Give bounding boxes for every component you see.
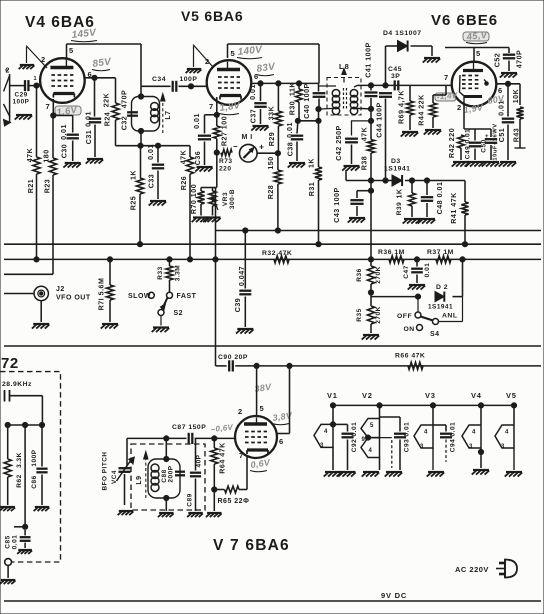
svg-text:C43 100P: C43 100P [333,187,341,223]
label heater V3 [425,391,436,400]
annot -1.4V [435,91,458,102]
svg-text:3.3M: 3.3M [175,265,182,281]
resistor R44 22K [429,85,446,128]
ground terminal [0,580,16,584]
svg-text:R44 22K: R44 22K [418,94,426,126]
label C34 [152,76,166,83]
svg-text:3: 3 [469,444,473,450]
capacitor C36 0.01 [198,136,211,165]
svg-text:R38: R38 [361,156,369,171]
pin label 2 V7 [238,407,243,416]
ground C85 [17,550,32,554]
svg-text:C87 150P: C87 150P [172,424,206,431]
label C33 0.01 [147,144,156,188]
label 28.9KHz [2,381,32,388]
label C30 0.01 [60,124,69,158]
capacitor C43 100P [350,200,363,216]
label C51 0.01 [498,100,507,142]
svg-text:72: 72 [1,355,19,372]
label V5 6BA6 [181,8,243,24]
node C39 top [243,228,248,233]
heater rail drops [333,405,514,437]
wire V4 grid input [10,85,41,87]
wire V6 cathode [464,105,491,129]
capacitor C45 3P [395,80,399,90]
node L7 bottom [138,128,143,133]
tube V4 [40,58,85,103]
ground S2 [152,328,170,333]
wire V4 cathode [53,99,72,116]
label J2 VFO OUT [56,286,91,302]
svg-text:R24: R24 [104,112,112,127]
slug arrow L8 [342,69,346,83]
node C42 join [368,118,373,123]
svg-text:R62: R62 [16,474,23,487]
capacitor C88 200P [175,472,185,476]
capacitor C40 100P lead [318,83,320,91]
annot 1.6V V4 [55,105,81,119]
wire C34 coupling to V5 grid [141,85,208,87]
ground grid V5 [186,69,202,73]
ground C37 [251,126,269,131]
label ON [404,326,415,333]
label OFF [397,313,412,320]
ground R69 [401,132,419,137]
capacitor C85 0.01 [20,530,31,548]
label D3 1S1941 [384,158,410,173]
label D4 1S1007 [383,30,422,37]
svg-text:C31: C31 [85,130,93,145]
heater V4h [462,425,484,455]
svg-text:4: 4 [424,430,428,436]
resistor R64 47K [211,438,218,489]
inductor L9 [151,464,159,492]
wire V7 screen link [256,366,258,416]
grid cap lead V4 [26,46,47,69]
svg-text:270K: 270K [375,266,382,284]
ground C49 [466,162,484,167]
annot 145V [71,27,98,41]
svg-text:R28: R28 [267,185,275,200]
wire B+ row under L7 [116,121,191,146]
label heater V1 [327,391,338,400]
label L9 [136,475,143,484]
resistor R37 1M on rail C [436,256,451,263]
node R35 top [368,290,373,295]
label R66 47K [395,353,425,360]
resistor R35 270K [367,293,374,334]
svg-text:5: 5 [260,404,265,413]
label C41 100P [365,42,373,78]
svg-text:R73: R73 [219,158,233,165]
ground J2 [32,324,50,329]
resistor R65 220 [214,486,239,493]
resistor R33 3.3M [166,259,173,292]
capacitor C30 0.01 [67,116,79,162]
tube V7 [235,416,277,458]
heater V5h [495,425,514,470]
node L7 top [138,94,143,99]
svg-text:V 7 6BA6: V 7 6BA6 [213,537,290,554]
label plus M1 [259,142,264,152]
wire V4 plate rail to C34 node [67,44,142,86]
node C34 right [188,84,193,89]
resistor R73 220 [221,149,232,155]
svg-text:300-B: 300-B [229,189,236,209]
capacitor C89 40P [190,438,201,511]
node R33 top [167,257,172,262]
svg-text:D 2: D 2 [436,284,448,291]
label V6 6BE6 [431,12,498,29]
label jack pin 2 [6,68,10,75]
tube V5 [207,60,252,105]
svg-text:5: 5 [69,46,74,55]
resistor R62 3.3K [4,425,11,505]
svg-text:R27 100: R27 100 [221,116,229,146]
wire V5 pin6 screen run [251,82,319,84]
node D2 anode [415,294,420,299]
ground C47 [408,285,426,290]
svg-text:V5: V5 [506,391,517,400]
svg-text:C49 0.01: C49 0.01 [465,129,472,159]
label C47 0.01 [403,263,431,279]
node X row 1 [5,422,10,427]
node C51 top [505,81,510,86]
svg-text:7: 7 [209,102,214,111]
label R28 150 [267,156,275,199]
svg-text:ANL: ANL [442,313,457,320]
label C85 0.01 [5,535,19,550]
label R29 33K [268,105,277,146]
node C37 top [258,81,263,86]
svg-text:C51: C51 [498,128,506,143]
ground C39 [236,329,254,334]
capacitor C50 10uF [485,129,497,160]
ground C31 [86,159,104,164]
resistor R71 5.6M [106,259,113,322]
heater V2 lower [361,438,380,458]
wire V6 pin6 out [496,84,520,105]
label C87 150P [172,424,206,431]
node R38 rail C [368,257,373,262]
svg-text:1S1941: 1S1941 [384,166,410,173]
label R27 100 [221,116,229,146]
pin label 7 V7 [239,451,244,460]
ground C33 [149,201,167,206]
meter M1 [240,144,258,162]
node screen left [295,118,300,123]
ground V5h [505,472,523,477]
svg-text:C34: C34 [152,76,166,83]
svg-text:470P: 470P [121,90,129,109]
svg-text:1S1941: 1S1941 [428,304,453,311]
wire V6 pin7 lead [0,0,1,1]
ground C50 [482,162,500,167]
node R36 junction [370,258,372,260]
label S4 [430,331,440,338]
capacitor C41 100P [365,85,378,109]
svg-text:R42 220: R42 220 [448,128,456,158]
svg-text:R29: R29 [268,132,276,147]
svg-text:150: 150 [267,156,275,169]
capacitor C33 0.01 [152,146,164,199]
svg-text:7: 7 [444,73,449,82]
resistor R25 1K [136,146,143,245]
svg-text:45,V: 45,V [465,30,488,43]
potentiometer VR3 300-B [209,188,218,216]
label C31 0.01 [85,111,94,144]
ground heater V1 [324,447,342,476]
svg-text:C90 20P: C90 20P [218,354,248,361]
capacitor C52 470P [503,48,515,72]
resistor R21 47K [33,86,40,260]
node V7 plate drop [287,363,292,368]
annot 45V V6 [463,30,489,44]
svg-text:R39: R39 [396,202,403,215]
variable capacitor VC4 [117,438,135,505]
svg-text:7: 7 [46,102,51,111]
svg-text:C50: C50 [481,139,488,152]
node C40 bottom [316,107,321,112]
node C41 bottom [368,106,373,111]
svg-text:+: + [259,142,264,152]
svg-text:C42 250P: C42 250P [335,125,343,161]
svg-text:OFF: OFF [397,313,412,320]
svg-text:6: 6 [279,437,284,446]
label R37 1M [427,249,454,256]
label R62 3.3K [16,452,23,488]
label ANL [442,313,457,320]
node X row 2 [23,422,28,427]
node V7 screen drop [254,363,259,368]
wire V2 down [379,458,381,471]
svg-text:VFO OUT: VFO OUT [56,295,91,302]
annot 38V a [254,382,273,394]
svg-text:R69 4,7K: R69 4,7K [398,90,406,124]
label C93 0.01 [404,422,411,452]
capacitor C38 0.01 [291,121,303,161]
svg-text:3: 3 [320,443,324,449]
IF transformer L8 box [327,78,361,116]
svg-text:C89: C89 [187,493,194,506]
wire crystal row [8,424,43,426]
svg-text:R35: R35 [356,308,363,321]
annot 1.9V [463,102,485,115]
tube V6 [452,62,497,107]
resistor R27 100 [213,126,220,153]
unit box dashed [0,372,61,562]
label heater V5 [506,391,517,400]
resistor R28 150 [274,153,281,230]
svg-text:C44 100P: C44 100P [376,102,384,138]
svg-text:5: 5 [231,49,236,58]
svg-text:C32: C32 [121,116,129,131]
svg-text:R36: R36 [356,268,363,281]
ground grid V4 [19,65,35,69]
resistor R31 1K [315,121,322,244]
svg-text:C45: C45 [388,66,402,73]
wire V5 cathode [205,97,217,134]
svg-text:C40 100P: C40 100P [303,83,311,119]
wire C41 node down [370,109,372,121]
svg-text:40P: 40P [196,454,203,467]
svg-text:1: 1 [34,76,38,82]
svg-text:10K: 10K [512,88,520,103]
diode D4 1S1007 [398,40,408,51]
wire R38 to rail [370,181,372,260]
node R29 top [276,81,281,86]
node C85 top [14,524,28,529]
label C42 250P [335,125,343,161]
svg-text:1K: 1K [308,158,316,168]
pin label 2 V6 [457,103,462,112]
node X row 3 [39,422,44,427]
wire bottom 9V line [4,600,541,602]
svg-text:0.01: 0.01 [498,100,506,116]
ground V4h [472,470,490,475]
node V2 center [365,435,391,440]
label minus M1 [233,142,238,151]
capacitor C31 0.01 [89,78,101,157]
inductor L8 secondary [350,85,371,114]
svg-text:V5 6BA6: V5 6BA6 [181,8,243,24]
svg-text:0.01: 0.01 [193,113,201,129]
svg-text:V4: V4 [471,391,482,400]
wire V7 plate link [277,366,290,434]
label R24 22K [103,92,112,126]
svg-text:C47: C47 [403,265,410,278]
svg-text:C41 100P: C41 100P [365,42,373,78]
svg-text:2: 2 [457,103,462,112]
capacitor C44 100P [379,93,392,180]
ground R35 [362,335,380,340]
wire D3 row [346,170,465,181]
svg-text:AC 220V: AC 220V [455,565,489,574]
svg-text:M I: M I [242,134,253,141]
pin label 5 V5 [231,49,236,58]
pin label 5 V6 [476,49,481,58]
svg-text:L7: L7 [165,110,172,119]
capacitor C47 0.01 [411,259,423,283]
svg-text:200P: 200P [168,465,175,482]
ground C38 [288,163,306,168]
annot 140V [237,44,264,58]
label D2 [436,284,448,291]
label C48 0.01 [436,182,444,215]
svg-text:R70 100: R70 100 [190,184,198,214]
connector input jack [4,70,11,126]
pin label 6 V5 [254,72,259,81]
ground C30 [63,163,81,168]
svg-text:+: + [485,134,489,140]
resistor R66 47K on row [408,362,423,369]
ground D4 [423,58,441,63]
svg-text:-1,4V: -1,4V [436,91,458,102]
svg-text:3: 3 [501,444,505,450]
ground C51 [499,162,517,167]
resistor R39 1K [409,181,416,218]
svg-text:5: 5 [476,49,481,58]
wire rail B [4,243,541,245]
svg-text:28.9KHz: 28.9KHz [2,381,32,388]
label C45 3P [388,66,402,80]
svg-text:ON: ON [404,326,415,333]
label R21 47K [26,147,35,193]
capacitor C86 100P [36,425,47,505]
capacitor C49 0.01 [469,129,481,160]
node V4 grid [34,83,39,88]
wire ANL row [371,259,463,296]
ground C42 [342,166,360,171]
svg-text:0.01: 0.01 [12,535,19,550]
resistor R69 4.7K [406,85,413,130]
svg-text:47K: 47K [361,126,369,141]
pin label 5 V4 [69,46,74,55]
node B+ L7 bottom [138,143,143,148]
svg-text:4: 4 [505,430,509,436]
ground R62 [0,507,15,511]
label R23 180 [43,149,52,193]
label R26 47K [180,149,189,190]
node C92 [330,422,335,427]
svg-text:33K: 33K [268,105,276,120]
label C32 470P [121,90,129,131]
resistor R41 47K [461,181,468,245]
svg-text:R64 47K: R64 47K [219,442,227,474]
label M1 [242,134,253,141]
ground R42 [452,162,470,167]
svg-text:470P: 470P [516,50,524,69]
annot 60V [487,93,506,106]
pin label 7 V6 [444,73,449,82]
node C31 top [92,75,97,80]
tank box L9 [148,438,180,511]
svg-text:7: 7 [239,451,244,460]
ground L9 [158,513,174,517]
label R64 47K [219,442,227,474]
label FAST [177,293,197,300]
wire rail D [4,273,53,275]
svg-text:0.01: 0.01 [147,144,155,160]
wire M1 to R28 [257,152,278,154]
label R32 47K [262,250,292,257]
svg-text:0.047: 0.047 [238,266,246,286]
svg-text:22K: 22K [103,92,111,107]
svg-text:100P: 100P [13,99,30,106]
pin label 6 V4 [88,70,93,79]
node BFO feed on rail C [213,257,218,262]
svg-text:C86: C86 [31,475,38,488]
wire R66 row [216,365,542,367]
wire V6 plate rail [445,48,509,62]
label C86 100P [31,449,38,488]
label R36 1M [378,249,405,256]
ground C89 [187,513,203,517]
svg-text:47K: 47K [180,149,188,164]
wire L8 secondary top to V6 pin7 [358,84,453,86]
switch S4 [415,297,463,331]
label R44 22K [418,94,426,126]
resistor R29 33K [275,83,282,153]
node C47 top [414,257,419,262]
node C33 top [155,143,160,148]
node V5 cathode [214,112,219,117]
slug arrow L7 [161,94,165,134]
label C49 0.01 [465,129,472,159]
resistor R38 47K [367,121,374,191]
svg-text:0.01: 0.01 [60,124,68,140]
capacitor C39 0.047 [239,231,251,328]
